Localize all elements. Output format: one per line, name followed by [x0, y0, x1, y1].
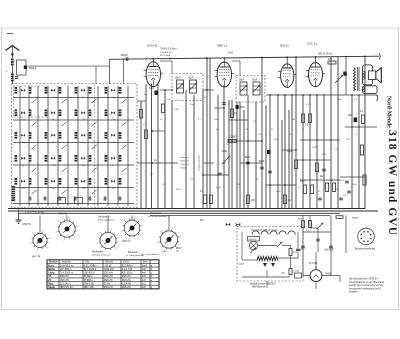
capacitor C21	[316, 238, 320, 240]
wire drop to UY1N right	[330, 215, 332, 276]
svg-text:Modellnummer NBGS/V: Modellnummer NBGS/V	[250, 282, 276, 285]
svg-text:Kurz: Kurz	[48, 263, 54, 267]
trimmer P2	[59, 221, 75, 237]
capacitor C19 +50uF	[329, 245, 333, 247]
svg-text:NBV 468: NBV 468	[84, 286, 95, 289]
svg-text:150 kHz: 150 kHz	[104, 272, 114, 275]
svg-text:Bem.: Bem.	[143, 262, 149, 264]
svg-text:T0,2A: T0,2A	[293, 270, 299, 273]
IF1 coil La	[177, 80, 184, 93]
capacitor C12	[267, 150, 270, 154]
wire feed x346	[345, 215, 347, 253]
antenna transformer box	[17, 60, 27, 75]
svg-text:70Ω: 70Ω	[281, 273, 285, 275]
tube UY1N	[310, 270, 322, 282]
svg-text:6-21,4 MHz: 6-21,4 MHz	[84, 264, 98, 267]
svg-text:468 kHz: 468 kHz	[60, 275, 70, 278]
wires band-switch verticals	[20, 86, 128, 206]
svg-text:4x8: 4x8	[142, 286, 147, 289]
wire stub trimmer5	[168, 215, 170, 230]
svg-text:Schalterstellung: Schalterstellung	[198, 155, 201, 171]
svg-text:30pF: 30pF	[252, 80, 258, 82]
potentiometer tone	[335, 75, 343, 83]
resistor R4	[230, 109, 233, 118]
wire chassis rail 2	[8, 210, 378, 212]
connector hook right	[379, 53, 380, 59]
wire drop x318	[317, 228, 319, 252]
capacitor C1 500pF	[24, 66, 27, 69]
svg-text:L-Bereich: L-Bereich	[180, 163, 190, 166]
svg-text:- 60 pF: - 60 pF	[104, 264, 112, 267]
resistor R19 ukw	[289, 249, 292, 256]
svg-text:468 kHz: 468 kHz	[60, 279, 70, 282]
svg-text:240V: 240V	[325, 272, 331, 276]
small rects on rail	[58, 198, 66, 204]
wire chassis rail 3	[18, 212, 340, 214]
svg-text:UKW: UKW	[176, 248, 182, 250]
wires right verticals	[303, 57, 365, 209]
svg-text:468 kHz: 468 kHz	[122, 286, 132, 289]
resistor R18	[332, 183, 335, 192]
svg-text:468 kHz: 468 kHz	[122, 275, 132, 278]
svg-text:den 4 geschlossen: den 4 geschlossen	[141, 254, 160, 256]
speaker magnet	[369, 71, 376, 80]
svg-text:1 2: 1 2	[363, 237, 366, 239]
tube UCH11	[146, 62, 160, 87]
svg-text:WN 31-42mA: WN 31-42mA	[318, 53, 333, 56]
wire drop x310	[309, 215, 311, 228]
svg-text:1x8: 1x8	[142, 268, 147, 271]
svg-text:714-2000 m: 714-2000 m	[60, 272, 73, 275]
svg-text:TA 468: TA 468	[180, 167, 187, 170]
potentiometer mains	[317, 223, 323, 229]
resistor R20 NSF	[302, 221, 305, 228]
wire mains right	[331, 275, 340, 277]
svg-text:UKW Ta: UKW Ta	[22, 223, 31, 226]
IF transformer I dashed box	[172, 74, 203, 101]
resistor R12 470	[328, 61, 336, 64]
svg-text:Nord-Mende: Nord-Mende	[386, 96, 392, 128]
antenna A1	[6, 46, 20, 51]
fuse F1	[295, 273, 302, 278]
wires mid horizontals	[137, 90, 296, 185]
svg-text:60-1460 k: 60-1460 k	[122, 264, 134, 267]
wire stub trimmer1	[39, 215, 41, 233]
svg-text:4x8: 4x8	[142, 275, 147, 278]
svg-text:0,1M: 0,1M	[174, 109, 179, 111]
wire stub trimmer2	[66, 215, 68, 220]
resistor R17	[325, 183, 328, 192]
svg-text:Lang: Lang	[48, 271, 55, 275]
wires band-switch horizontals	[13, 98, 134, 204]
potentiometer ukw	[277, 242, 283, 248]
junction dot x346	[345, 74, 347, 76]
wire chassis rail 1	[8, 208, 365, 210]
wire UBF11 to IF2	[232, 60, 240, 62]
svg-text:0,2MΩ: 0,2MΩ	[229, 136, 236, 139]
switch levers S1	[31, 99, 126, 194]
svg-text:468 kHz: 468 kHz	[104, 275, 114, 278]
resistor R24	[363, 175, 366, 185]
capacitor C7 5000	[236, 105, 239, 109]
capacitor C15	[322, 168, 326, 170]
svg-text:gez. Ta: gez. Ta	[32, 255, 41, 258]
resistor R8	[283, 195, 286, 204]
heater element	[257, 257, 278, 261]
svg-text:Osz.: Osz.	[85, 262, 90, 264]
wire power h2	[310, 227, 318, 229]
svg-text:NBV-Bereich: NBV-Bereich	[252, 286, 266, 289]
svg-text:27µ u.47µ Jµ/μg: 27µ u.47µ Jµ/μg	[25, 210, 44, 214]
capacitor C4 500pF	[125, 57, 127, 61]
svg-text:UCL 11: UCL 11	[307, 42, 317, 46]
label NSD box	[248, 237, 260, 242]
svg-text:Mittel: Mittel	[48, 267, 55, 271]
svg-text:50 Hz: 50 Hz	[104, 282, 111, 285]
svg-text:800µF: 800µF	[296, 250, 303, 252]
svg-text:Zf 468 k: Zf 468 k	[84, 275, 94, 278]
wire antenna coupling	[28, 65, 109, 67]
svg-text:Bereich: Bereich	[49, 262, 58, 264]
resistor R22 ukw	[289, 269, 292, 275]
tube pin stubs	[144, 70, 325, 77]
svg-text:3,5k: 3,5k	[293, 252, 297, 254]
svg-text:14,8-50,3 m: 14,8-50,3 m	[60, 264, 73, 267]
svg-text:3x60: 3x60	[142, 264, 148, 267]
svg-text:Rücklaufen: Rücklaufen	[92, 252, 104, 254]
svg-text:468 kHz: 468 kHz	[104, 279, 114, 282]
svg-text:0,3M: 0,3M	[312, 147, 317, 149]
svg-text:468 kHz: 468 kHz	[104, 286, 114, 289]
IF1 trimmer arrows	[177, 83, 184, 90]
resistor R6	[246, 195, 249, 204]
svg-text:NBGS/V 48: NBGS/V 48	[60, 286, 74, 289]
band-switch coil/contact cells	[15, 87, 122, 185]
svg-text:UKW 7a: UKW 7a	[122, 241, 131, 243]
svg-text:b.Rückf gesehen: b.Rückf gesehen	[98, 220, 115, 222]
capacitor C2	[15, 76, 18, 78]
ground symbol	[18, 209, 20, 220]
switch contacts aux	[226, 223, 240, 226]
svg-text:517-1632 k: 517-1632 k	[84, 268, 97, 271]
svg-text:M-Bereich: M-Bereich	[180, 160, 190, 163]
svg-text:+50µF: +50µF	[238, 264, 245, 266]
svg-text:5MΩ: 5MΩ	[222, 150, 227, 153]
svg-text:in Drücker gesehen 7: in Drücker gesehen 7	[148, 215, 170, 218]
capacitor C18 ukw	[296, 248, 300, 250]
resistor R23	[360, 145, 363, 155]
capacitor C22 25nF	[345, 180, 349, 182]
svg-text:+50 50µF: +50 50µF	[324, 250, 334, 252]
svg-text:150-420 k: 150-420 k	[84, 272, 96, 275]
svg-text:70-80V 5,4-6mA: 70-80V 5,4-6mA	[160, 48, 177, 51]
heater chain arcs	[252, 231, 297, 235]
trimmer P3	[100, 233, 116, 249]
svg-text:420-150 k: 420-150 k	[122, 272, 134, 275]
svg-text:187-580 m: 187-580 m	[60, 268, 72, 271]
wire power h1	[303, 231, 331, 233]
wire drop to UY1N left	[302, 215, 304, 276]
IF2 coil Lb	[253, 82, 260, 95]
speaker field coil box	[363, 86, 378, 94]
output transformer T1	[354, 68, 356, 91]
inner dashed divider	[94, 84, 96, 207]
wire stub trimmer4	[131, 215, 133, 219]
wire UCL11 to rail	[315, 57, 317, 63]
wire UCH11 anode to rail	[152, 59, 154, 62]
capacitor C5 50pF	[155, 91, 158, 96]
resistor R13	[361, 115, 364, 124]
capacitor C9 50pF	[246, 161, 250, 163]
capacitor C16	[318, 197, 322, 199]
motor M1	[249, 241, 257, 249]
resistor R21 NSF	[309, 221, 312, 228]
svg-text:4x8: 4x8	[142, 272, 147, 275]
UKW adapter dashed box	[237, 227, 303, 282]
svg-text:468 kHz: 468 kHz	[122, 279, 132, 282]
svg-text:Vorkreis: Vorkreis	[105, 261, 114, 264]
svg-text:UM 11: UM 11	[280, 44, 289, 48]
svg-text:30pF: 30pF	[287, 151, 293, 153]
wire rail left corner	[108, 59, 110, 84]
resistor R10	[301, 114, 304, 123]
svg-text:NSF: NSF	[298, 219, 303, 221]
tube UCL11	[309, 63, 323, 87]
capacitor C20 +8uF	[301, 245, 305, 247]
registration mark	[7, 33, 13, 35]
svg-text:Buchsenanordnung: Buchsenanordnung	[355, 248, 376, 251]
svg-text:2x6: 2x6	[142, 279, 147, 282]
coil L2	[11, 74, 14, 82]
coil L1 antenna	[11, 59, 14, 66]
svg-text:80pF: 80pF	[259, 161, 265, 163]
note text block	[349, 278, 385, 294]
svg-text:5mA: 5mA	[228, 52, 233, 55]
wire B+ top rail	[109, 56, 379, 59]
inner dashed sub-box antenna coils	[14, 86, 49, 117]
resistor R3	[144, 130, 147, 139]
svg-text:1M: 1M	[292, 119, 295, 121]
tube UBF11	[217, 62, 231, 87]
wire antenna lead-in	[11, 47, 13, 58]
svg-text:8µF: 8µF	[348, 115, 353, 117]
band-switch tiny labels	[22, 97, 116, 190]
svg-text:0,1M: 0,1M	[216, 187, 221, 189]
svg-text:ansätze.: ansätze.	[349, 291, 359, 294]
svg-text:50pF: 50pF	[245, 157, 251, 159]
wires mid verticals	[141, 57, 296, 209]
svg-text:UCH 11: UCH 11	[147, 44, 158, 48]
junction dots rail	[152, 56, 365, 60]
svg-text:Abgleich: Abgleich	[62, 261, 72, 264]
resistor R14	[315, 163, 318, 172]
capacitor C6	[222, 102, 226, 104]
svg-text:W0 1,5mA: W0 1,5mA	[160, 54, 171, 57]
svg-text:mA: mA	[162, 250, 166, 253]
wire to band switch box	[11, 66, 13, 84]
svg-text:TA: TA	[48, 274, 51, 278]
svg-text:NSD2/N: NSD2/N	[249, 239, 257, 241]
resistor R15	[303, 185, 306, 194]
wires ukw box	[241, 232, 243, 260]
svg-text:800µF: 800µF	[352, 218, 359, 220]
svg-text:Netz: Netz	[48, 281, 54, 285]
socket diagram	[358, 228, 375, 245]
svg-text:25nF: 25nF	[340, 180, 345, 182]
svg-text:318 GW und GVU: 318 GW und GVU	[386, 130, 398, 236]
svg-text:Zf 468 k: Zf 468 k	[84, 279, 94, 282]
padding capacitors row	[12, 186, 121, 201]
trimmer P1	[33, 234, 47, 248]
svg-text:110-240 V: 110-240 V	[60, 282, 72, 285]
trimmer P4	[124, 220, 140, 236]
resistor R16	[310, 185, 313, 194]
svg-text:Skala: Skala	[48, 285, 55, 289]
table frame	[47, 260, 159, 289]
IF2 coil La	[240, 82, 247, 95]
svg-text:Vorderes In: Vorderes In	[98, 216, 110, 219]
svg-text:30pF: 30pF	[239, 80, 245, 82]
capacitor C8	[218, 172, 222, 174]
svg-text:5000: 5000	[240, 107, 246, 109]
IF transformer II dashed box	[236, 76, 265, 103]
svg-text:gez.: gez.	[200, 220, 205, 222]
capacitor C13	[343, 72, 346, 76]
resistor R9	[294, 160, 297, 169]
capacitor C11	[268, 170, 272, 172]
svg-text:0,2 A 46: 0,2 A 46	[122, 282, 132, 285]
capacitor C10 80pF	[260, 166, 264, 168]
svg-text:2-8mA 0,4V: 2-8mA 0,4V	[160, 51, 172, 54]
svg-text:3,1m: 3,1m	[22, 97, 27, 99]
svg-text:4µF: 4µF	[320, 176, 325, 178]
band-switch unit dashed box	[12, 84, 138, 208]
potentiometer volume	[222, 156, 230, 164]
svg-text:1x2: 1x2	[142, 282, 147, 285]
wire speaker hook	[377, 95, 378, 101]
svg-text:ZF: ZF	[48, 278, 52, 282]
svg-text:1600 kHz: 1600 kHz	[104, 268, 115, 271]
svg-text:500pF: 500pF	[29, 66, 37, 70]
svg-text:3,2m: 3,2m	[52, 97, 57, 99]
arrow antenna	[11, 54, 14, 58]
resistor R7	[203, 195, 206, 204]
wire chassis rail 4	[150, 215, 330, 217]
trimmer P5	[160, 231, 177, 248]
svg-text:GW-E 50: GW-E 50	[84, 282, 95, 285]
svg-text:Rücklerre: Rücklerre	[128, 251, 139, 254]
svg-text:lu/längst gemessen: lu/längst gemessen	[92, 254, 112, 257]
svg-text:30pF: 30pF	[175, 78, 181, 80]
wires right horizontals	[296, 95, 378, 180]
table body text	[48, 263, 153, 289]
IF1 coil Lb	[190, 80, 197, 93]
speaker cone	[376, 68, 382, 83]
wire UM11 to rail	[286, 57, 288, 64]
svg-text:Zw.Kr.: Zw.Kr.	[123, 261, 130, 264]
wire value labels sprinkle	[144, 94, 358, 193]
resistor R1	[139, 110, 142, 119]
capacitor C17	[339, 197, 343, 199]
wire right h177	[340, 176, 365, 178]
resistor R2 cathode	[161, 104, 164, 113]
svg-text:Stellung I: Stellung I	[180, 156, 189, 159]
svg-text:0,5M: 0,5M	[244, 129, 249, 131]
speaker LS frame	[363, 65, 373, 85]
svg-text:5,4-1,5 M: 5,4-1,5 M	[122, 268, 133, 271]
svg-text:50pF: 50pF	[149, 88, 155, 90]
svg-text:Vorderseite: Vorderseite	[150, 212, 162, 215]
junction dots mid	[151, 89, 360, 186]
svg-text:30pF: 30pF	[188, 78, 194, 80]
svg-text:5000: 5000	[300, 181, 306, 183]
svg-text:UKW Ta: UKW Ta	[58, 213, 67, 216]
wire UBF11 anode to rail	[223, 58, 225, 62]
tube UM11	[281, 64, 294, 88]
resistor R11	[308, 114, 311, 123]
capacitor C23 2nF	[347, 190, 351, 192]
svg-text:500pF: 500pF	[121, 53, 129, 57]
IF2 trimmer arrows	[240, 85, 247, 92]
svg-text:UBF 11: UBF 11	[217, 44, 228, 48]
svg-text:UY1N: UY1N	[309, 261, 317, 265]
capacitor C14 el	[354, 118, 358, 123]
wire UCH11 to IF1	[160, 60, 172, 62]
wire stub trimmer3	[107, 215, 109, 232]
resistor R5 0,2M horizontal	[228, 139, 237, 142]
